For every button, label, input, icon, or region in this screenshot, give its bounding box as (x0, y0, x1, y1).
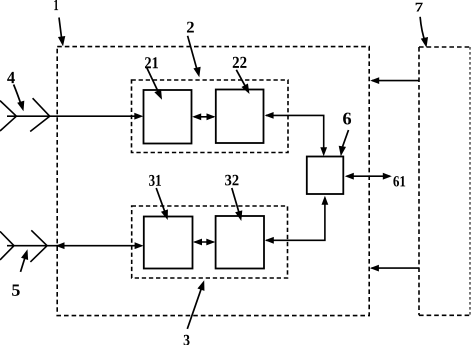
block 6 (307, 157, 344, 195)
leader arrow for label 2 (188, 36, 203, 78)
leader arrow for label 4 (14, 85, 27, 113)
dashed enclosure 2 (132, 80, 289, 153)
block 21 (144, 90, 192, 144)
label 32 (225, 175, 238, 186)
wire from block 22 to block 6 (265, 112, 328, 156)
label 2 (187, 22, 194, 33)
label 21 (145, 57, 158, 68)
block 32 (216, 216, 264, 269)
leader arrow for label 5 (21, 248, 32, 272)
leader arrow for label 1 (58, 18, 67, 47)
label 4 (7, 72, 15, 83)
wire from block 31 to antenna 5 (7, 242, 144, 249)
label 22 (233, 57, 247, 68)
leader arrow for label 31 (156, 188, 171, 221)
dashed enclosure 3 (132, 206, 288, 278)
label 61 (393, 176, 405, 186)
outer dashed enclosure 1 (57, 47, 369, 316)
leader arrow for label 3 (187, 279, 207, 329)
wire from enclosure 7 to enclosure 1 (upper) (370, 77, 419, 84)
wire from antenna 4 to block 21 (7, 113, 143, 120)
label 31 (149, 175, 161, 186)
leader arrow for label 7 (420, 17, 430, 49)
antenna 4 (0, 98, 50, 131)
dashed enclosure 7 (419, 47, 470, 315)
label 7 (416, 3, 423, 12)
label 3 (184, 335, 190, 345)
leader arrow for label 6 (337, 130, 348, 157)
leader arrow for label 32 (232, 188, 245, 222)
bidirectional arrow between 31 and 32 (193, 239, 215, 246)
block 31 (144, 217, 193, 269)
wire from enclosure 7 to enclosure 1 (lower) (370, 265, 419, 272)
label 1 (54, 0, 58, 10)
label 6 (343, 113, 351, 125)
bidirectional arrow 61 from block 6 (345, 173, 392, 180)
label 5 (12, 285, 20, 296)
wire from block 32 to block 6 (265, 196, 329, 244)
block 22 (216, 90, 264, 144)
leader arrow for label 21 (147, 68, 166, 102)
antenna 5 (0, 230, 47, 262)
leader arrow for label 22 (236, 70, 252, 96)
bidirectional arrow between 21 and 22 (192, 113, 215, 120)
